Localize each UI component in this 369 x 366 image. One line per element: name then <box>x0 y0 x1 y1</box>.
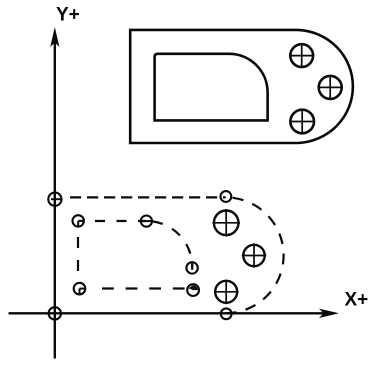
svg-text:Y+: Y+ <box>56 5 80 26</box>
svg-text:X+: X+ <box>345 290 369 311</box>
